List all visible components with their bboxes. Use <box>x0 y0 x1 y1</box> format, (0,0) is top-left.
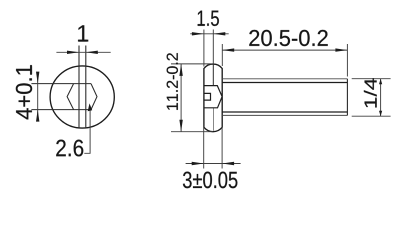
dimension 1.5 right arrow <box>213 32 225 35</box>
dimension text 1 <box>78 25 88 41</box>
head outline circle <box>50 66 114 128</box>
dimension 4+0.1 line <box>37 73 39 122</box>
extension line head left face down (for 3) <box>203 128 205 169</box>
hex recess bottom line (side) <box>204 97 222 108</box>
thread line top <box>222 82 347 84</box>
leader line for 2.6 <box>84 106 90 153</box>
dimension text 2.6 <box>56 140 83 157</box>
dimension 20.5-0.2 left arrow <box>222 48 234 51</box>
dimension text 1.5 <box>198 11 219 26</box>
hex recess right point <box>91 84 97 110</box>
extension line head top (for 11.2) <box>171 63 213 65</box>
dimension 3±0.05 line <box>186 163 241 165</box>
slot bottom edge lower (side, faint) <box>212 108 214 131</box>
dimension 11.2-0.2 top arrow <box>179 64 182 76</box>
dimension 3±0.05 left arrow <box>192 162 204 165</box>
extension line head right face up (for 20.5) <box>221 44 223 66</box>
hex recess bottom flat + extension line for dim 4+0.1 <box>31 109 91 111</box>
shank end line <box>346 79 348 116</box>
dimension 4+0.1 top arrow <box>36 72 39 84</box>
head outline (side) <box>204 64 222 132</box>
slot edge right (also extension line for dim 1) <box>85 46 87 129</box>
dimension 1.5 line <box>190 33 229 35</box>
dimension 1/4 top arrow <box>379 79 382 85</box>
slot notch (side) <box>204 93 211 100</box>
dimension 1.5 left arrow <box>192 32 204 35</box>
dimension 20.5-0.2 right arrow <box>335 48 347 51</box>
thread line bottom <box>222 111 347 113</box>
dimension 4+0.1 bottom arrow <box>36 110 39 122</box>
dimension text 20.5-0.2 <box>249 30 327 46</box>
extension line head left face up (for 1.5) <box>203 30 205 67</box>
leader arrow 2.6 <box>88 103 93 111</box>
hex recess top flat + extension line for dim 4+0.1 <box>31 83 91 85</box>
extension line head right face down (for 3) <box>221 128 223 169</box>
extension line slot bottom up (for 1.5) <box>212 30 214 65</box>
hex recess top line (side) <box>204 86 222 97</box>
shank outer top line <box>222 78 347 80</box>
dimension 1 right arrow <box>86 51 98 54</box>
dimension 3±0.05 right arrow <box>222 162 234 165</box>
extension line shank top (for 1/4) <box>352 78 391 80</box>
extension line shank end up (for 20.5) <box>346 44 348 77</box>
dimension 20.5-0.2 line <box>222 49 347 51</box>
dimension 1 left arrow <box>67 51 79 54</box>
dimension 11.2-0.2 line <box>180 64 182 132</box>
dimension text 3±0.05 <box>183 172 237 189</box>
dimension 1/4 line <box>380 79 382 117</box>
dimension text 11.2-0.2 <box>167 53 178 110</box>
shank outer bottom line <box>222 114 347 116</box>
hex recess left point <box>67 84 74 110</box>
dimension text 1/4 <box>364 78 377 107</box>
slot edge left (also extension line for dim 1) <box>78 46 80 129</box>
dimension 11.2-0.2 bottom arrow <box>179 120 182 132</box>
dimension text 4+0.1 <box>16 65 32 119</box>
slot bottom edge upper (side) <box>212 64 214 85</box>
dimension 1/4 bottom arrow <box>379 111 382 117</box>
dimension 1 line (slot width, top) <box>56 51 110 53</box>
extension line shank bottom (for 1/4) <box>352 115 391 117</box>
extension line head bottom (for 11.2) <box>171 131 213 133</box>
